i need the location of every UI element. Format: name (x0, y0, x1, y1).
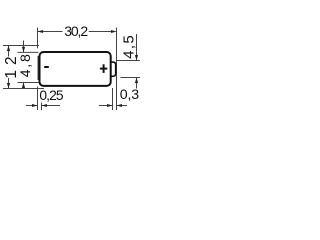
svg-text:4,8: 4,8 (18, 52, 34, 77)
svg-text:0,3: 0,3 (120, 87, 139, 103)
svg-text:4,5: 4,5 (121, 34, 138, 59)
svg-text:0,25: 0,25 (39, 88, 63, 103)
svg-text:30,2: 30,2 (64, 23, 88, 39)
